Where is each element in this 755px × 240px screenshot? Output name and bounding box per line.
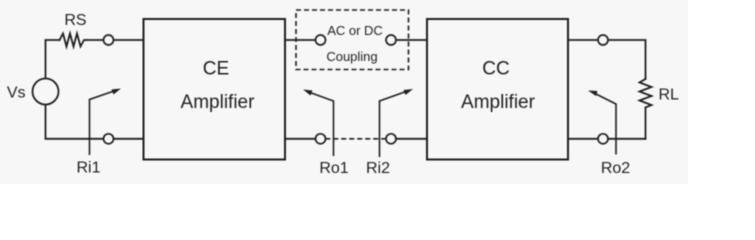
wire: RS to node <box>87 39 144 41</box>
svg-text:RL: RL <box>659 87 680 104</box>
node: Ri1 terminal <box>104 134 114 144</box>
wire: Ri2 node to CC input bottom <box>396 138 427 140</box>
node: Ro1 terminal <box>316 134 326 144</box>
wire: CE output top to coupling <box>285 39 316 41</box>
node: Ro2 top terminal <box>598 35 608 45</box>
svg-text:CE: CE <box>203 59 229 80</box>
arrow: Ri1 looking into CE input <box>90 89 122 156</box>
svg-text:Amplifier: Amplifier <box>461 92 536 113</box>
svg-text:Ri2: Ri2 <box>366 160 390 177</box>
node: RS output terminal <box>104 35 114 45</box>
amplifier block U2: CC amplifier <box>427 19 568 160</box>
arrow: Ro1 looking into CE output <box>303 90 334 157</box>
wire: RL bottom <box>645 108 647 139</box>
svg-text:AC or DC: AC or DC <box>327 23 383 38</box>
wire: CC output top to RL top <box>568 40 646 79</box>
node: coupling output terminal <box>386 35 396 45</box>
amplifier block U1: CE amplifier <box>144 19 286 160</box>
arrow: Ri2 looking into CC input <box>380 89 414 157</box>
wire: coupling to CC input top <box>396 39 427 41</box>
svg-text:Amplifier: Amplifier <box>181 92 256 113</box>
svg-text:Ro2: Ro2 <box>601 160 630 177</box>
source Vs <box>33 79 59 105</box>
node: Ri2 terminal <box>386 134 396 144</box>
wire: CC output bottom to RL bottom <box>568 138 646 140</box>
coupling box: AC or DC coupling <box>296 10 409 70</box>
resistor RL <box>640 79 652 108</box>
svg-text:Coupling: Coupling <box>326 49 377 64</box>
wire: Vs bottom to Ri1 node to CE input <box>46 105 144 139</box>
wire: Vs top to RS <box>46 40 60 79</box>
svg-text:RS: RS <box>64 12 86 29</box>
node: coupling input terminal <box>316 35 326 45</box>
svg-text:Ro1: Ro1 <box>319 160 348 177</box>
svg-text:CC: CC <box>482 59 509 80</box>
node: Ro2 terminal <box>598 134 608 144</box>
arrow: Ro2 looking into CC output <box>588 91 616 155</box>
svg-text:Vs: Vs <box>7 85 26 102</box>
svg-text:Ri1: Ri1 <box>76 160 100 177</box>
wire: dashed link Ro1 to Ri2 <box>326 138 386 140</box>
wire: CE output bottom to Ro1 node <box>285 138 316 140</box>
resistor RS <box>60 34 87 47</box>
